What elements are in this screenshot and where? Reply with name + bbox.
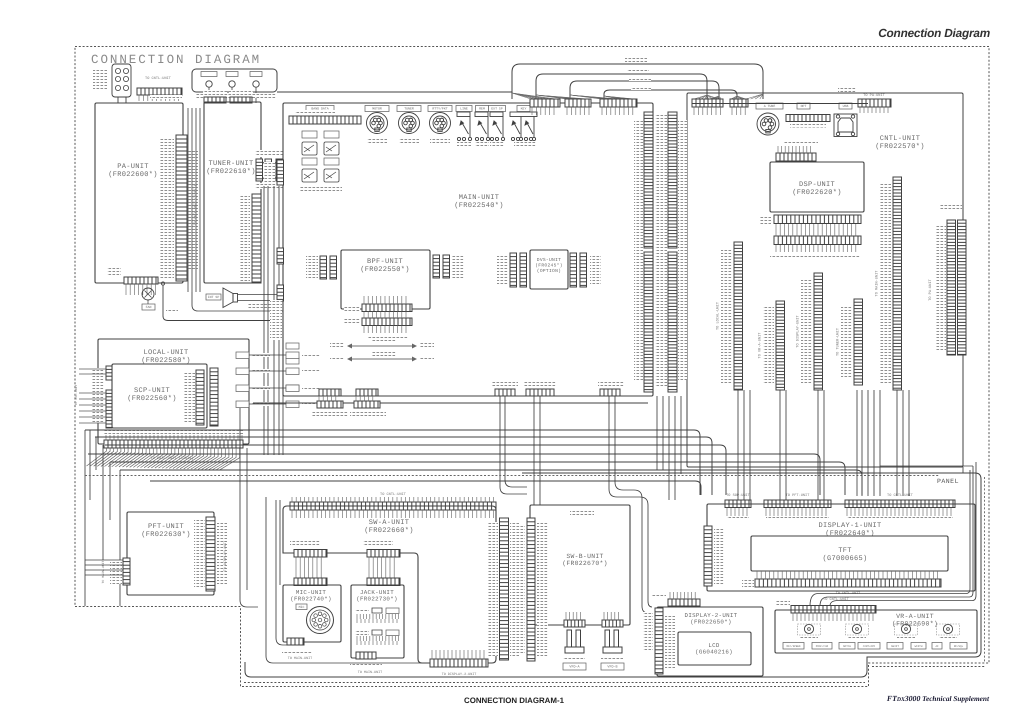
svg-text:TO CNTL-UNIT (J2027): TO CNTL-UNIT (J2027): [193, 185, 198, 226]
svg-text:BPF-UNIT(FR022550*): BPF-UNIT(FR022550*): [360, 258, 410, 274]
svg-text:SCP-UNIT(FR022560*): SCP-UNIT(FR022560*): [127, 387, 177, 403]
svg-text:VFD-A: VFD-A: [569, 665, 580, 670]
svg-text:MAIN-UNIT(FR022540*): MAIN-UNIT(FR022540*): [454, 194, 504, 210]
svg-text:TO LOCAL-UNIT: TO LOCAL-UNIT: [715, 301, 720, 330]
svg-text:KEY: KEY: [521, 107, 527, 111]
svg-text:LOCAL-UNIT(FR022580*): LOCAL-UNIT(FR022580*): [141, 349, 191, 365]
svg-text:RTTY/PKT: RTTY/PKT: [432, 107, 447, 111]
svg-text:TO CNTL-UNIT: TO CNTL-UNIT: [145, 76, 172, 81]
svg-text:DISPLAY-2-UNIT(FR022650*): DISPLAY-2-UNIT(FR022650*): [685, 612, 738, 626]
svg-text:INT SP: INT SP: [208, 295, 220, 299]
svg-text:CONT/APF: CONT/APF: [863, 645, 876, 648]
svg-text:MIC: MIC: [299, 605, 305, 609]
svg-text:TO MAIN-UNIT: TO MAIN-UNIT: [874, 270, 879, 297]
svg-text:NOTCH: NOTCH: [843, 645, 851, 648]
svg-text:SW-B-UNIT(FR022670*): SW-B-UNIT(FR022670*): [562, 553, 608, 567]
svg-text:REM: REM: [479, 107, 485, 111]
svg-text:A TUNE: A TUNE: [764, 104, 776, 108]
svg-text:CONNECTION DIAGRAM: CONNECTION DIAGRAM: [91, 53, 261, 67]
svg-text:TO PA-UNIT: TO PA-UNIT: [863, 93, 885, 98]
svg-text:PROC/CAR: PROC/CAR: [816, 645, 829, 648]
svg-text:PFT-UNIT(FR022630*): PFT-UNIT(FR022630*): [141, 523, 191, 539]
svg-text:TO CNTL-UNIT: TO CNTL-UNIT: [380, 492, 407, 497]
svg-text:TUNER-UNIT(FR022610*): TUNER-UNIT(FR022610*): [206, 160, 256, 176]
svg-text:TO MAIN-UNIT: TO MAIN-UNIT: [288, 656, 312, 661]
svg-text:TO TUNER-UNIT: TO TUNER-UNIT: [835, 327, 840, 356]
svg-text:OPT: OPT: [801, 104, 807, 108]
svg-text:LINE: LINE: [460, 107, 468, 111]
svg-text:USB: USB: [843, 104, 849, 108]
svg-text:MIC-UNIT(FR022740*): MIC-UNIT(FR022740*): [290, 589, 332, 603]
svg-text:PANEL: PANEL: [937, 478, 959, 485]
svg-text:Connection Diagram: Connection Diagram: [878, 26, 990, 40]
svg-text:TO CNTL-UNIT: TO CNTL-UNIT: [823, 597, 850, 602]
svg-text:TO DISPLAY-UNIT: TO DISPLAY-UNIT: [795, 314, 800, 347]
svg-text:VFD-B: VFD-B: [607, 665, 617, 670]
svg-text:TO DISPLAY-UNIT: TO DISPLAY-UNIT: [223, 541, 228, 572]
svg-text:FAN: FAN: [146, 305, 152, 309]
svg-text:TO DISPLAY-2-UNIT: TO DISPLAY-2-UNIT: [442, 672, 477, 677]
svg-text:MIC/SPEED: MIC/SPEED: [786, 645, 800, 648]
svg-text:AF: AF: [935, 645, 939, 648]
svg-text:TUNER: TUNER: [404, 107, 414, 111]
svg-text:RF/SQL: RF/SQL: [954, 645, 964, 648]
svg-text:SW-A-UNIT(FR022660*): SW-A-UNIT(FR022660*): [364, 519, 414, 535]
svg-text:WIDTH: WIDTH: [915, 645, 923, 648]
svg-text:DSP-UNIT(FR022620*): DSP-UNIT(FR022620*): [792, 181, 842, 197]
svg-text:DISPLAY-1-UNIT(FR022640*): DISPLAY-1-UNIT(FR022640*): [818, 522, 881, 538]
svg-text:VR-A-UNIT(FR022690*): VR-A-UNIT(FR022690*): [892, 613, 938, 627]
svg-text:DVS-UNIT(FR0245*)(OPTION): DVS-UNIT(FR0245*)(OPTION): [535, 257, 563, 274]
svg-text:SHIFT: SHIFT: [891, 645, 899, 648]
svg-text:TO PFT-UNIT: TO PFT-UNIT: [786, 493, 811, 498]
svg-text:CONNECTION DIAGRAM-1: CONNECTION DIAGRAM-1: [464, 696, 565, 705]
svg-text:JACK-UNIT(FR022730*): JACK-UNIT(FR022730*): [356, 589, 398, 603]
svg-text:MOTOR: MOTOR: [372, 107, 382, 111]
svg-text:EXT SP: EXT SP: [491, 107, 503, 111]
svg-text:TO MAIN-UNIT: TO MAIN-UNIT: [358, 670, 382, 675]
svg-text:TO CNTL-UNIT: TO CNTL-UNIT: [887, 493, 914, 498]
svg-text:CNTL-UNIT(FR022570*): CNTL-UNIT(FR022570*): [875, 135, 925, 151]
svg-text:TO VR-A-UNIT: TO VR-A-UNIT: [757, 332, 762, 359]
svg-text:TO MAIN-UNIT: TO MAIN-UNIT: [101, 560, 105, 583]
svg-text:TO PA-UNIT: TO PA-UNIT: [928, 278, 933, 300]
svg-text:TO MIC-UNIT: TO MIC-UNIT: [74, 384, 78, 405]
